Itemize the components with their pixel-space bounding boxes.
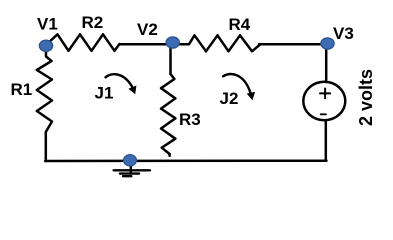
node V1 bbox=[39, 40, 52, 51]
wire bottom rail bbox=[45, 159, 326, 162]
minus terminal mark bbox=[321, 113, 326, 115]
plus terminal mark bbox=[320, 89, 330, 99]
loop arrow J1 bbox=[106, 74, 137, 94]
node ground junction bbox=[124, 155, 137, 166]
wire R1 bottom to rail bbox=[45, 132, 48, 161]
svg-text:R2: R2 bbox=[82, 13, 104, 32]
node V2 bbox=[166, 37, 179, 48]
wire R4 to node V3 bbox=[259, 43, 326, 46]
node V3 bbox=[321, 38, 334, 49]
svg-text:R3: R3 bbox=[179, 110, 201, 129]
svg-text:J2: J2 bbox=[220, 89, 239, 108]
wire R2 to node V2 bbox=[120, 43, 169, 46]
svg-text:V1: V1 bbox=[37, 15, 58, 34]
resistor R3 bbox=[161, 74, 175, 154]
wire R3 bottom to rail bbox=[168, 154, 171, 156]
svg-text:R1: R1 bbox=[11, 80, 33, 99]
wire node V3 to source bbox=[325, 45, 328, 82]
resistor R2 bbox=[47, 34, 120, 51]
resistor R1 bbox=[37, 51, 52, 133]
svg-text:R4: R4 bbox=[229, 15, 251, 34]
resistor R4 bbox=[176, 35, 261, 51]
svg-text:V2: V2 bbox=[137, 20, 158, 39]
wire source bottom to rail bbox=[325, 121, 328, 161]
svg-text:V3: V3 bbox=[333, 24, 354, 43]
svg-text:2 volts: 2 volts bbox=[356, 69, 376, 126]
svg-text:J1: J1 bbox=[95, 84, 114, 103]
ground bbox=[114, 164, 150, 176]
wire node V2 to R3 bbox=[169, 45, 172, 74]
voltage source V (2 volts) bbox=[303, 82, 345, 120]
loop arrow J2 bbox=[223, 74, 255, 100]
